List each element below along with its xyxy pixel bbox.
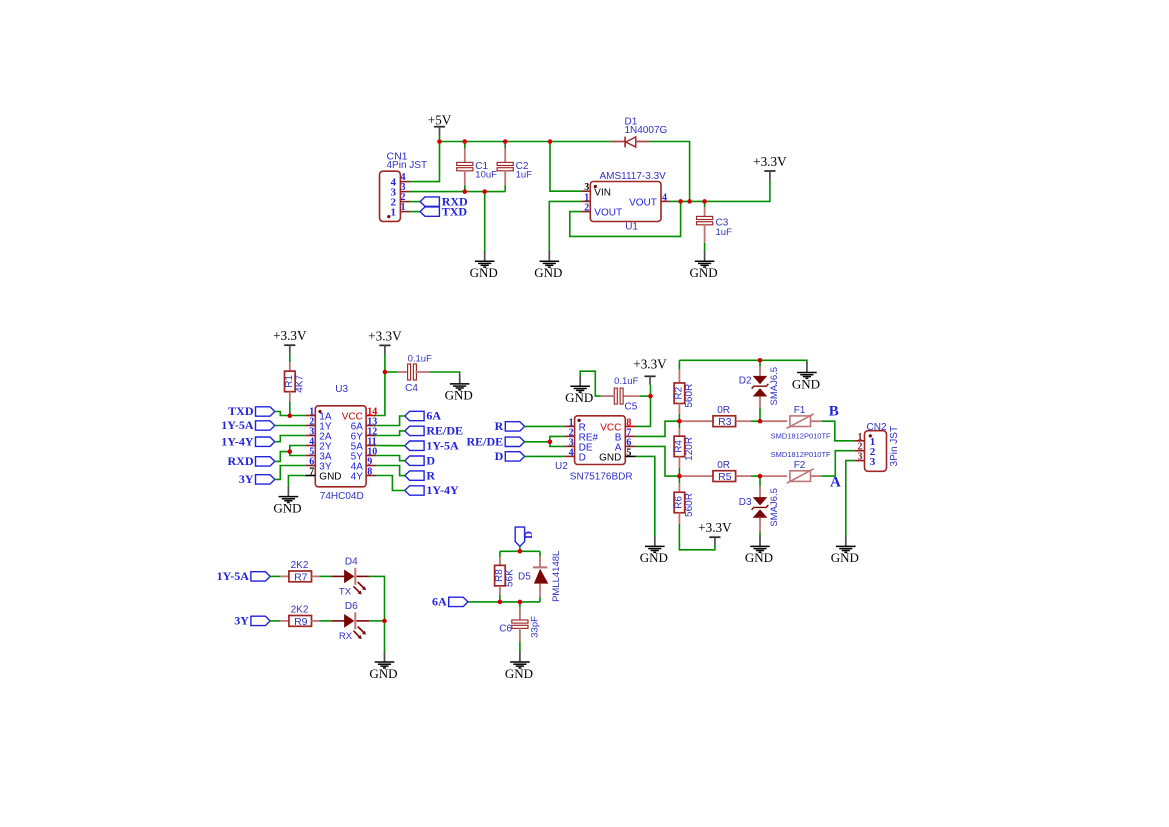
resistor R3 left lead [679, 420, 712, 422]
wire R4 bottom green [678, 468, 680, 476]
wire snubber bottom rail [468, 601, 540, 603]
svg-text:PMLL4148L: PMLL4148L [551, 551, 562, 602]
svg-text:SMAJ6.5: SMAJ6.5 [769, 488, 780, 527]
wire R7 to D4 [319, 575, 331, 577]
svg-text:1N4007G: 1N4007G [625, 125, 668, 136]
svg-text:+5V: +5V [428, 113, 452, 128]
wire R4 top green [678, 421, 680, 428]
svg-text:R: R [495, 419, 504, 433]
svg-text:1uF: 1uF [516, 169, 533, 180]
wire D4 to GND rail [369, 576, 384, 621]
svg-text:120R: 120R [684, 437, 695, 461]
wire RXD branch [275, 452, 290, 462]
svg-text:CN2: CN2 [867, 422, 887, 433]
wire U1 pin1 to GND [549, 201, 581, 252]
capacitor C2 top lead [504, 149, 506, 164]
svg-text:D: D [579, 452, 586, 463]
svg-text:4Y: 4Y [351, 472, 364, 483]
svg-text:5: 5 [626, 447, 631, 458]
node +5V rail [437, 139, 442, 144]
svg-text:1Y-5A: 1Y-5A [426, 438, 459, 452]
svg-text:U1: U1 [625, 222, 638, 233]
capacitor C1 leads [464, 149, 466, 164]
ground GND10 [831, 536, 859, 565]
svg-text:3: 3 [858, 452, 863, 463]
wire to R7 [270, 575, 280, 577]
D5 bottom lead [539, 584, 541, 597]
ground GND2 [534, 251, 562, 280]
node label B [829, 403, 839, 419]
R6 bottom lead [678, 513, 680, 524]
resistor R5 0R [713, 460, 736, 483]
wire snubber top rail [500, 550, 540, 552]
net flag 6A in [432, 595, 468, 609]
ground GND8 [745, 536, 773, 565]
svg-text:+3.3V: +3.3V [633, 357, 667, 372]
resistor R2 560R [673, 383, 695, 408]
wire C2 bottom green [504, 185, 506, 191]
R5 right lead [736, 475, 751, 477]
svg-text:D: D [495, 449, 504, 463]
net flag TXD2 [228, 404, 275, 418]
R1 bottom lead [289, 392, 291, 402]
svg-text:R5: R5 [718, 471, 732, 483]
capacitor C2 1uF [497, 161, 532, 180]
wire R6 bottom to +3.3V [679, 524, 715, 550]
svg-text:GND: GND [831, 550, 859, 565]
svg-text:C5: C5 [625, 401, 638, 412]
node TXD node [288, 413, 293, 418]
svg-text:2: 2 [584, 203, 589, 214]
net flag 3Y led [234, 614, 270, 628]
R9 right lead [312, 620, 320, 622]
svg-text:33pF: 33pF [529, 616, 540, 638]
wire U1 pin2 loop [570, 201, 681, 236]
node D2 top [758, 358, 763, 363]
wire C3 bottom green [704, 243, 706, 252]
wire R9 to D6 [319, 620, 331, 622]
resistor R6 leads [678, 483, 680, 492]
resistor R4 120R [673, 436, 695, 461]
D6 cathode lead [357, 620, 370, 622]
svg-text:3: 3 [870, 456, 876, 468]
power +3.3V top [753, 154, 787, 180]
svg-text:F1: F1 [794, 405, 806, 416]
svg-text:TXD: TXD [228, 404, 254, 418]
wire R8 top green [499, 551, 501, 557]
svg-text:+3.3V: +3.3V [698, 520, 732, 535]
svg-text:R6: R6 [673, 496, 684, 509]
svg-text:GND: GND [369, 666, 397, 681]
svg-text:RE/DE: RE/DE [467, 435, 504, 449]
resistor R8 leads [499, 557, 501, 565]
wire R6 top green [678, 476, 680, 483]
node C1 bottom [463, 189, 468, 194]
wire C6 top green [519, 602, 521, 607]
ground GND1 [470, 251, 498, 280]
ground GND4 [445, 374, 473, 403]
wire D2 top green [759, 360, 761, 366]
capacitor C4 left lead [397, 371, 409, 373]
svg-text:3Y: 3Y [239, 472, 254, 486]
node C2 top [503, 139, 508, 144]
resistor R5 left lead [679, 475, 712, 477]
svg-text:GND: GND [792, 376, 820, 391]
svg-text:D: D [523, 531, 535, 539]
LED D4 [339, 557, 366, 598]
R7 right lead [312, 575, 320, 577]
capacitor C5 0.1uF [614, 376, 638, 412]
diode D1 1N4007G [611, 116, 668, 147]
connector CN1 4Pin JST [380, 150, 428, 221]
net flag 1Y-5A out [405, 438, 459, 452]
wire C4 right green [430, 372, 460, 375]
wire U3 pin8 wire [376, 476, 405, 491]
node A col node [677, 474, 682, 479]
resistor R7 2K2 [289, 560, 312, 583]
svg-text:RXD: RXD [228, 454, 254, 468]
wire U3 pin10 wire [376, 456, 405, 461]
LED D4 anode lead [331, 575, 344, 577]
svg-text:R1: R1 [284, 375, 295, 388]
wire C1 top lead green [464, 142, 466, 149]
svg-text:4Pin JST: 4Pin JST [387, 160, 428, 171]
net flag R out [405, 468, 436, 482]
wire U2 pin2 pin3 loop [550, 436, 564, 446]
svg-text:GND: GND [470, 265, 498, 280]
wire C4 left green [385, 371, 397, 373]
R4 bottom lead [678, 457, 680, 468]
wire U3 pin4 pin5 loop [290, 446, 305, 456]
wire C6 bottom green [519, 642, 521, 654]
wire C1 bottom green [464, 185, 466, 191]
svg-text:TXD: TXD [442, 204, 468, 218]
wire R2 bottom green [678, 414, 680, 421]
wire TXD to U3 pin1 [275, 412, 305, 416]
svg-text:+3.3V: +3.3V [273, 328, 307, 343]
svg-text:3Y: 3Y [234, 614, 249, 628]
label SMD1812P010TF F1 [771, 432, 831, 441]
svg-text:TX: TX [339, 587, 352, 598]
D2 top lead [759, 367, 761, 376]
resistor R1 4K7 [284, 371, 306, 393]
svg-text:6A: 6A [432, 595, 447, 609]
wire 3Y to U3 pin6 [275, 466, 305, 480]
ground GND11 [505, 652, 533, 681]
wire +3.3V stem C5 [650, 385, 652, 396]
capacitor C3 top lead [704, 207, 706, 217]
capacitor C4 0.1uF [405, 354, 432, 394]
resistor R9 left lead [280, 620, 289, 622]
svg-text:GND: GND [534, 265, 562, 280]
svg-text:GND: GND [273, 500, 301, 515]
wire CN1 pin4 to +5V [410, 142, 439, 182]
svg-text:GND: GND [690, 265, 718, 280]
ground GND5 [273, 486, 301, 515]
D3 bottom lead [759, 518, 761, 532]
wire D5 bottom green [539, 597, 541, 602]
svg-text:R2: R2 [673, 386, 684, 399]
node R8 node [498, 600, 503, 605]
ground GND7 [792, 362, 820, 391]
wire RE/DE wire [525, 441, 550, 443]
LED D6 [339, 601, 366, 642]
wire D5 top green [539, 551, 541, 556]
svg-text:D2: D2 [739, 375, 752, 386]
wire U2 pin7 to B node [636, 421, 680, 436]
svg-text:10uF: 10uF [475, 169, 497, 180]
R3 right lead [736, 420, 751, 422]
node GND branch [482, 189, 487, 194]
svg-text:A: A [830, 475, 841, 491]
wire A wire to CN2 [822, 451, 854, 476]
wire CN1 pin3 rail [410, 191, 505, 193]
resistor R7 left lead [280, 575, 289, 577]
diode D5 PMLL4148L [518, 551, 562, 602]
svg-text:U3: U3 [335, 384, 348, 395]
capacitor C1 10uF [457, 161, 497, 180]
node label A [830, 475, 841, 491]
svg-text:D: D [426, 453, 435, 467]
wire R to U2 pin1 [525, 425, 565, 427]
IC U2 SN75176BDR [555, 416, 636, 483]
wire D2 bottom green [759, 408, 761, 422]
net flag D out [405, 453, 436, 467]
svg-text:+3.3V: +3.3V [368, 328, 402, 343]
wire U2 pin8 to VCC [636, 396, 651, 426]
wire D6 to GND node [369, 620, 384, 622]
net flag RE/DE in [467, 435, 525, 449]
R2 bottom lead [678, 403, 680, 414]
wire R5 to D3 node [751, 475, 760, 477]
node C5 node [648, 394, 653, 399]
wire CN2 pin3 to GND [846, 461, 854, 538]
fuse F2 [787, 460, 814, 484]
svg-text:R8: R8 [494, 569, 505, 582]
C4 right lead [416, 371, 431, 373]
wire D1 to VOUT node [650, 142, 690, 202]
svg-text:AMS1117-3.3V: AMS1117-3.3V [600, 171, 667, 182]
node C6 node [518, 600, 523, 605]
svg-text:2K2: 2K2 [291, 605, 309, 616]
wire LED gnd drop [384, 621, 386, 653]
svg-text:74HC04D: 74HC04D [320, 491, 364, 502]
svg-text:0.1uF: 0.1uF [408, 354, 432, 365]
C5 left lead [601, 395, 615, 397]
D4 cathode lead [357, 575, 370, 577]
resistor R3 0R [713, 405, 736, 428]
svg-text:C4: C4 [405, 383, 418, 394]
wire D3 bottom green [759, 532, 761, 538]
node REDE node [548, 440, 553, 445]
wire U3 pin12 wire [376, 431, 405, 436]
net flag 1Y-4Y out [405, 483, 459, 497]
svg-text:1uF: 1uF [716, 227, 733, 238]
svg-text:3Pin JST: 3Pin JST [889, 426, 900, 467]
svg-text:SN75176BDR: SN75176BDR [570, 471, 633, 482]
node B col node [677, 419, 682, 424]
svg-text:F2: F2 [794, 460, 806, 471]
svg-text:VOUT: VOUT [594, 208, 622, 219]
wire U2 pin6 to A node [636, 446, 680, 476]
wire top rail right [679, 360, 807, 363]
svg-text:560R: 560R [684, 493, 695, 517]
svg-text:1: 1 [391, 206, 397, 218]
capacitor C6 33pF [499, 616, 540, 638]
wire to R9 [270, 620, 280, 622]
diode D5 top lead [539, 557, 541, 568]
node C1 top [463, 139, 468, 144]
resistor R8 56K [494, 565, 516, 587]
svg-text:8: 8 [367, 467, 372, 478]
net flag 1Y-5A in [221, 418, 275, 432]
svg-text:4K7: 4K7 [294, 375, 305, 393]
svg-text:GND: GND [565, 390, 593, 405]
F2 right lead [811, 475, 823, 477]
node VIN branch [548, 139, 553, 144]
svg-text:SMD1812P010TF: SMD1812P010TF [771, 450, 831, 459]
C2 bottom lead [504, 170, 506, 185]
svg-text:0R: 0R [717, 460, 730, 471]
node A node [758, 474, 763, 479]
TVS diode D3 SMAJ6.5 [739, 488, 780, 527]
C3 bottom lead [704, 224, 706, 243]
fuse F1 left lead [760, 420, 787, 422]
svg-text:2K2: 2K2 [291, 560, 309, 571]
IC U3 74HC04D [305, 384, 377, 502]
D3 top lead [759, 486, 761, 497]
svg-text:GND: GND [505, 666, 533, 681]
wire R3 to D2 node [751, 420, 760, 422]
svg-text:SMAJ6.5: SMAJ6.5 [769, 367, 780, 406]
F1 right lead [811, 420, 823, 422]
wire VOUT rail [670, 180, 770, 202]
svg-text:RE/DE: RE/DE [426, 424, 463, 438]
ground GND3 [690, 251, 718, 280]
wire U3 pin7 to GND [288, 476, 305, 488]
svg-text:4: 4 [662, 192, 667, 203]
svg-text:1Y-5A: 1Y-5A [217, 569, 250, 583]
svg-text:GND: GND [745, 550, 773, 565]
svg-text:0.1uF: 0.1uF [614, 376, 638, 387]
net flag 1Y-4Y in [221, 434, 275, 448]
net flag 3Y in [239, 472, 275, 486]
ground GND9 [640, 536, 668, 565]
power +3.3V C5 [633, 357, 667, 385]
resistor R1 top lead [289, 362, 291, 371]
svg-text:4: 4 [569, 447, 574, 458]
node B node [758, 419, 763, 424]
wire C5 to GND loop [580, 371, 601, 396]
svg-text:R: R [426, 468, 435, 482]
wire D3 top green [759, 476, 761, 486]
connector CN2 3Pin JST [854, 422, 900, 471]
wire R1 bottom green [289, 402, 291, 416]
wire D flag stem [519, 546, 521, 551]
wire U3 pin11 wire [376, 445, 405, 447]
net flag TXD1 [420, 204, 467, 218]
svg-text:0R: 0R [717, 405, 730, 416]
ground GND6 [565, 376, 593, 405]
svg-text:D5: D5 [518, 572, 531, 583]
svg-text:D6: D6 [345, 601, 358, 612]
resistor R4 leads [678, 428, 680, 436]
node top rail node [518, 549, 523, 554]
svg-text:SMD1812P010TF: SMD1812P010TF [771, 432, 831, 441]
wire CN1 pin1 wire [410, 211, 420, 213]
resistor R9 2K2 [289, 605, 312, 628]
wire +5V rail [440, 141, 611, 143]
svg-text:VOUT: VOUT [629, 197, 657, 208]
power +5V [428, 113, 452, 136]
net flag 6A out [405, 409, 442, 423]
power +3.3V C4 [368, 328, 402, 354]
D2 bottom lead [759, 397, 761, 408]
net flag D top [515, 527, 535, 546]
svg-text:+3.3V: +3.3V [753, 154, 787, 169]
wire U2 pin5 to GND [636, 456, 655, 537]
svg-text:D3: D3 [739, 497, 752, 508]
capacitor C5 right lead [623, 395, 640, 397]
wire C2 top lead green [504, 142, 506, 149]
wire VIN wire [550, 142, 582, 192]
wire C3 top green [704, 201, 706, 207]
capacitor C6 top lead [519, 607, 521, 621]
C1 bottom lead [464, 170, 466, 185]
svg-text:R7: R7 [294, 571, 308, 583]
node VOUT b [687, 199, 692, 204]
C6 bottom lead [519, 628, 521, 642]
wire +3.3V stem C4 [384, 354, 386, 372]
svg-text:R4: R4 [673, 440, 684, 453]
net flag RXD1 [420, 194, 468, 208]
wire D to U2 pin4 [525, 455, 565, 457]
svg-text:R3: R3 [718, 416, 732, 428]
svg-text:C6: C6 [499, 624, 512, 635]
wire C5 right green [640, 395, 651, 397]
svg-text:56K: 56K [505, 569, 516, 587]
node VOUT c [702, 199, 707, 204]
wire B wire to CN2 [822, 421, 854, 441]
wire +5V stem [439, 135, 441, 142]
power +3.3V R6 [698, 520, 732, 546]
net flag 1Y-5A led [217, 569, 271, 583]
resistor R2 leads [678, 370, 680, 383]
wire to U3 pin2 [275, 425, 305, 427]
svg-text:VIN: VIN [594, 188, 611, 199]
wire R8 bottom green [499, 595, 501, 602]
TVS diode D2 SMAJ6.5 [739, 367, 780, 406]
wire U3 pin13 wire [376, 416, 405, 426]
power +3.3V R1 [273, 328, 307, 354]
net flag R in [495, 419, 525, 433]
svg-text:GND: GND [599, 452, 621, 463]
ground GND12 [369, 652, 397, 681]
svg-text:U2: U2 [555, 461, 568, 472]
R8 bottom lead [499, 586, 501, 595]
wire U3 pin14 to VCC [376, 372, 385, 416]
node RXD node [288, 449, 293, 454]
svg-text:560R: 560R [684, 384, 695, 408]
svg-text:D4: D4 [345, 557, 358, 568]
resistor R6 560R [673, 492, 695, 517]
wire U3 pin9 wire [376, 466, 405, 476]
net flag RE/DE out [405, 424, 463, 438]
fuse F2 left lead [760, 475, 787, 477]
LED D6 anode lead [331, 620, 344, 622]
svg-text:6A: 6A [426, 409, 441, 423]
label SMD1812P010TF F2 [771, 450, 831, 459]
